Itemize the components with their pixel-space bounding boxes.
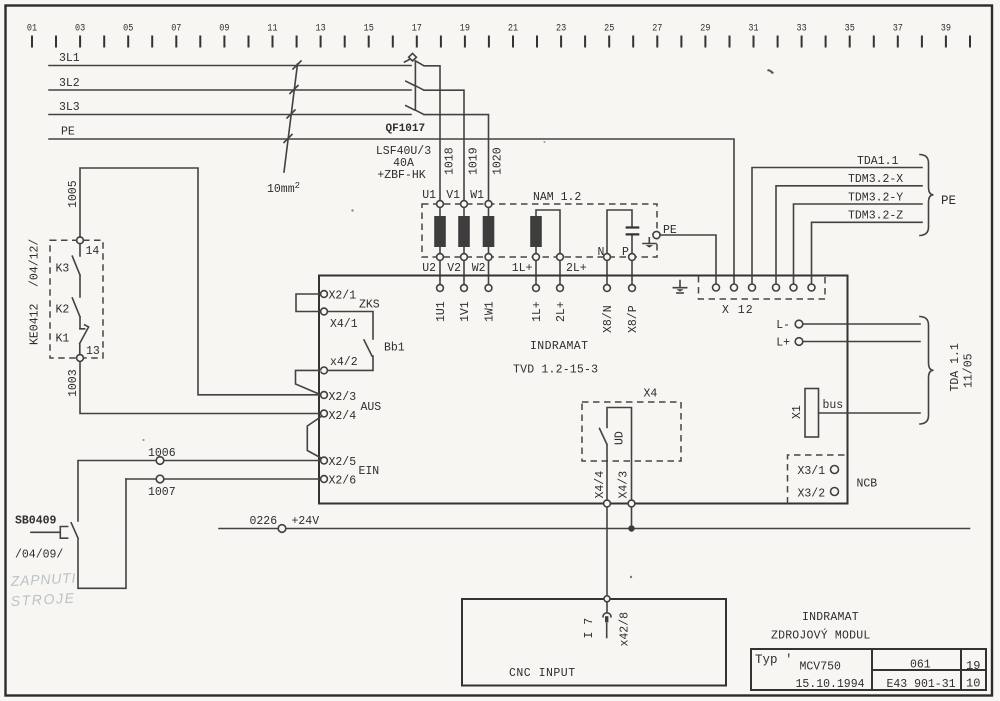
svg-text:TDM3.2-Y: TDM3.2-Y xyxy=(848,192,903,205)
svg-text:17: 17 xyxy=(412,23,422,35)
svg-text:X2/1: X2/1 xyxy=(329,290,357,303)
svg-text:V1: V1 xyxy=(446,189,460,202)
svg-text:2L+: 2L+ xyxy=(566,262,587,275)
contact UD xyxy=(600,408,632,504)
wire PE xyxy=(49,139,734,284)
svg-text:13: 13 xyxy=(316,23,326,35)
terminal 1U1 xyxy=(437,285,444,292)
wire from NAM to TVD terminal x=607 xyxy=(606,260,608,284)
svg-text:1L+: 1L+ xyxy=(512,262,533,275)
contact Bb1 xyxy=(327,312,373,371)
terminal X12 pin x=776 xyxy=(773,284,780,291)
wire 3L1 xyxy=(49,65,411,67)
wire 0226 +24V rail xyxy=(219,528,970,530)
svg-text:1V1: 1V1 xyxy=(459,301,472,322)
svg-text:10: 10 xyxy=(966,677,980,691)
svg-text:PE: PE xyxy=(61,126,75,139)
svg-text:INDRAMAT: INDRAMAT xyxy=(530,340,588,353)
wire 3L3 xyxy=(49,114,411,116)
svg-text:X2/3: X2/3 xyxy=(329,391,357,404)
svg-text:/04/09/: /04/09/ xyxy=(15,549,63,562)
svg-text:3L1: 3L1 xyxy=(59,52,80,65)
svg-text:1003: 1003 xyxy=(67,369,80,397)
svg-text:+24V: +24V xyxy=(292,515,320,528)
svg-text:MCV750: MCV750 xyxy=(800,661,842,674)
ground earth symbol inside TVD xyxy=(673,281,686,288)
svg-text:x42/8: x42/8 xyxy=(619,612,632,647)
svg-text:K1: K1 xyxy=(56,333,70,346)
circuit-breaker QF1017 linkage xyxy=(414,61,416,110)
terminal X8/P xyxy=(629,285,636,292)
terminal node at x=464 top of NAM xyxy=(461,201,468,208)
terminal X12 pin x=793.5 xyxy=(790,284,797,291)
contact K1 (NC) xyxy=(80,325,89,355)
svg-text:NCB: NCB xyxy=(857,478,878,491)
terminal X12 pin x=716 xyxy=(713,284,720,291)
svg-text:TDA 1.1: TDA 1.1 xyxy=(949,343,962,391)
contact K3 xyxy=(72,244,80,297)
svg-text:Bb1: Bb1 xyxy=(384,342,405,355)
terminal 14 xyxy=(77,237,84,244)
svg-text:10mm2: 10mm2 xyxy=(267,181,300,196)
wire 3L2 xyxy=(49,89,411,91)
terminal X12 pin x=811.5 xyxy=(808,284,815,291)
contact K2 xyxy=(72,298,80,329)
circuit-breaker QF1017 pole 2 xyxy=(406,81,464,200)
wire X2/1 to X4/1 bracket xyxy=(296,294,321,312)
svg-text:TDM3.2-X: TDM3.2-X xyxy=(848,173,903,186)
svg-text:X2/4: X2/4 xyxy=(329,410,357,423)
svg-text:U2: U2 xyxy=(422,262,436,275)
terminal X2/5 xyxy=(321,457,328,464)
ground earth symbol near PE xyxy=(643,238,656,244)
svg-text:1019: 1019 xyxy=(468,147,481,175)
svg-text:U1: U1 xyxy=(422,189,436,202)
svg-text:Typ ʹ: Typ ʹ xyxy=(755,653,793,667)
wire from NAM to TVD terminal x=440 xyxy=(439,260,441,284)
svg-text:19: 19 xyxy=(966,659,980,673)
svg-text:AUS: AUS xyxy=(361,401,382,414)
terminal 2L+ xyxy=(557,285,564,292)
svg-text:X8/N: X8/N xyxy=(602,305,615,333)
module NCB dashed outline xyxy=(788,455,848,504)
svg-text:STROJE: STROJE xyxy=(10,590,76,609)
connector socket x42/8 xyxy=(603,602,611,617)
svg-text:X2/6: X2/6 xyxy=(329,475,357,488)
terminal x4/2 xyxy=(321,367,328,374)
svg-text:X4/1: X4/1 xyxy=(330,318,358,331)
module NAM 1.2 dashed outline xyxy=(422,204,657,257)
terminal L- xyxy=(795,320,803,328)
wire 1005 xyxy=(80,168,321,395)
svg-text:01: 01 xyxy=(27,23,37,35)
terminal node bottom of NAM x=464 xyxy=(461,254,468,261)
svg-text:ZAPNUTI: ZAPNUTI xyxy=(9,570,76,589)
svg-text:0226: 0226 xyxy=(250,515,278,528)
svg-text:V2: V2 xyxy=(447,262,461,275)
terminal X8/N xyxy=(604,285,611,292)
terminal 1W1 xyxy=(485,285,492,292)
terminal node bottom of NAM x=536 xyxy=(533,254,540,261)
svg-text:19: 19 xyxy=(460,23,470,35)
terminal node bottom of NAM x=607 xyxy=(604,254,611,261)
svg-text:1020: 1020 xyxy=(492,147,505,175)
terminal node bottom of NAM x=632 xyxy=(629,254,636,261)
svg-text:27: 27 xyxy=(652,23,662,35)
svg-text:EIN: EIN xyxy=(359,465,380,478)
module KE0412 dashed outline xyxy=(50,240,103,358)
svg-text:L+: L+ xyxy=(776,337,790,350)
wire from NAM to TVD terminal x=464 xyxy=(463,260,465,284)
wire 1003 xyxy=(80,361,321,413)
terminal 13 xyxy=(77,355,84,362)
wire 1006 xyxy=(78,461,321,522)
module CNC INPUT outline xyxy=(462,599,726,686)
svg-text:X4/3: X4/3 xyxy=(618,471,631,499)
terminal X12 pin x=734 xyxy=(731,284,738,291)
svg-text:TDM3.2-Z: TDM3.2-Z xyxy=(848,210,903,223)
terminal X4/3 xyxy=(628,500,635,507)
svg-text:SB0409: SB0409 xyxy=(15,515,57,528)
brace PE group xyxy=(920,155,934,236)
wire X4/4 down to CNC xyxy=(606,507,608,595)
fuse F2 xyxy=(458,216,470,247)
svg-text:33: 33 xyxy=(797,23,807,35)
svg-text:1006: 1006 xyxy=(148,447,176,460)
svg-text:23: 23 xyxy=(556,23,566,35)
svg-text:1007: 1007 xyxy=(148,486,176,499)
handwritten note ZAPNUTI STROJE xyxy=(9,570,76,609)
svg-text:E43 901-31: E43 901-31 xyxy=(887,678,956,691)
svg-text:x4/2: x4/2 xyxy=(330,356,358,369)
svg-text:35: 35 xyxy=(845,23,855,35)
terminal X2/6 xyxy=(321,476,328,483)
terminal 1V1 xyxy=(461,285,468,292)
svg-text:L-: L- xyxy=(776,319,790,332)
connector X1 bus bar xyxy=(805,389,819,438)
connector X 12 dashed outline xyxy=(699,276,826,299)
svg-text:13: 13 xyxy=(86,345,100,358)
cable size marker 10mm2 xyxy=(284,64,298,172)
svg-text:K3: K3 xyxy=(56,263,70,276)
fuse F3 xyxy=(483,216,495,247)
svg-text:UD: UD xyxy=(614,431,627,445)
svg-text:31: 31 xyxy=(748,23,758,35)
svg-text:QF1017: QF1017 xyxy=(386,123,426,135)
fuse F1 xyxy=(434,216,446,247)
wire x4/2 to X2/3 bracket xyxy=(296,370,321,394)
circuit-breaker QF1017 pole 1 xyxy=(405,59,441,200)
terminal X2/3 xyxy=(321,392,328,399)
svg-text:X3/1: X3/1 xyxy=(798,465,826,478)
terminal X3/2 xyxy=(831,488,839,496)
svg-text:X8/P: X8/P xyxy=(627,305,640,333)
svg-text:37: 37 xyxy=(893,23,903,35)
wire from NAM to TVD terminal x=560 xyxy=(559,260,561,284)
svg-text:15.10.1994: 15.10.1994 xyxy=(796,678,865,691)
wire from NAM to TVD terminal x=536 xyxy=(535,260,537,284)
capacitor C1 with N P terminals xyxy=(607,210,632,254)
svg-text:1U1: 1U1 xyxy=(435,301,448,322)
wire X2/4 to X2/5 link xyxy=(307,416,322,459)
svg-text:09: 09 xyxy=(219,23,229,35)
wire TDM3.2-Z xyxy=(812,222,923,284)
svg-text:15: 15 xyxy=(364,23,374,35)
svg-text:K2: K2 xyxy=(56,304,70,317)
svg-text:29: 29 xyxy=(700,23,710,35)
terminal X4/4 xyxy=(604,500,611,507)
terminal at CNC input xyxy=(604,596,610,602)
svg-text:CNC INPUT: CNC INPUT xyxy=(509,667,576,680)
svg-text:21: 21 xyxy=(508,23,518,35)
module INDRAMAT TVD 1.2-15-3 outline xyxy=(319,276,848,504)
terminal X2/4 xyxy=(321,410,328,417)
terminal X2/1 xyxy=(321,291,328,298)
svg-text:TVD 1.2-15-3: TVD 1.2-15-3 xyxy=(513,364,598,377)
svg-text:I 7: I 7 xyxy=(583,618,596,639)
terminal node at x=488.5 top of NAM xyxy=(485,201,492,208)
terminal node bottom of NAM x=440 xyxy=(437,254,444,261)
circuit-breaker QF1017 pole 3 xyxy=(406,106,489,201)
svg-text:X1: X1 xyxy=(791,405,804,419)
terminal L+ xyxy=(795,338,803,346)
svg-text:14: 14 xyxy=(86,245,100,258)
svg-text:1W1: 1W1 xyxy=(484,301,497,322)
ruler scale 01-39 with ticks xyxy=(32,36,970,48)
terminal node bottom of NAM x=488.5 xyxy=(485,254,492,261)
svg-text:3L3: 3L3 xyxy=(59,101,80,114)
wire TDA1.1 xyxy=(752,168,922,285)
svg-text:03: 03 xyxy=(75,23,85,35)
wire TDM3.2-X xyxy=(776,186,922,284)
wire from NAM to TVD terminal x=488.5 xyxy=(488,260,490,284)
svg-text:ZDROJOVÝ MODUL: ZDROJOVÝ MODUL xyxy=(771,629,870,643)
terminal X3/1 xyxy=(831,466,839,474)
svg-text:ZKS: ZKS xyxy=(359,299,380,312)
scan speckle marks (decorative) xyxy=(767,69,774,74)
terminal X4/1 xyxy=(321,308,328,315)
svg-text:/04/12/: /04/12/ xyxy=(29,239,42,287)
svg-text:39: 39 xyxy=(941,23,951,35)
svg-text:11/05: 11/05 xyxy=(963,353,976,388)
terminal node at x=440 top of NAM xyxy=(437,201,444,208)
brace TDA 1.1 11/05 xyxy=(920,317,934,425)
svg-text:X4: X4 xyxy=(644,388,658,401)
wire TDM3.2-Y xyxy=(794,204,923,284)
svg-text:PE: PE xyxy=(941,194,956,208)
svg-text:W2: W2 xyxy=(472,262,486,275)
svg-text:INDRAMAT: INDRAMAT xyxy=(802,611,859,624)
svg-text:+ZBF-HK: +ZBF-HK xyxy=(377,169,425,182)
circuit-breaker QF1017 actuator diamond xyxy=(409,53,417,61)
wire from NAM to TVD terminal x=632 xyxy=(631,260,633,284)
svg-text:1L+: 1L+ xyxy=(531,301,544,322)
fuse F4 (NAM) xyxy=(530,216,542,247)
connector X4 dashed outline xyxy=(582,402,681,461)
svg-text:07: 07 xyxy=(171,23,181,35)
svg-text:25: 25 xyxy=(604,23,614,35)
svg-text:061: 061 xyxy=(910,659,931,672)
svg-text:X3/2: X3/2 xyxy=(798,488,826,501)
svg-text:X2/5: X2/5 xyxy=(329,456,357,469)
svg-text:X4/4: X4/4 xyxy=(594,471,607,499)
title block table xyxy=(751,649,986,690)
PE terminal on NAM with earth symbol xyxy=(653,231,660,238)
svg-text:1005: 1005 xyxy=(67,180,80,208)
svg-text:1018: 1018 xyxy=(444,147,457,175)
svg-text:KE0412: KE0412 xyxy=(29,303,42,345)
svg-text:2L+: 2L+ xyxy=(555,301,568,322)
terminal node bottom of NAM x=560 xyxy=(557,254,564,261)
svg-text:TDA1.1: TDA1.1 xyxy=(857,155,899,168)
svg-text:NAM 1.2: NAM 1.2 xyxy=(533,191,581,204)
wire 1007 xyxy=(126,478,321,480)
svg-text:W1: W1 xyxy=(470,189,484,202)
svg-text:X 12: X 12 xyxy=(722,304,754,317)
svg-text:05: 05 xyxy=(123,23,133,35)
terminal 1L+ xyxy=(533,285,540,292)
svg-text:3L2: 3L2 xyxy=(59,77,80,90)
terminal X12 pin x=752 xyxy=(749,284,756,291)
wire X4/3 to +24V junction xyxy=(631,507,633,529)
svg-text:bus: bus xyxy=(823,399,844,412)
wire PE circle to X12 xyxy=(660,235,716,284)
svg-text:11: 11 xyxy=(267,23,277,35)
